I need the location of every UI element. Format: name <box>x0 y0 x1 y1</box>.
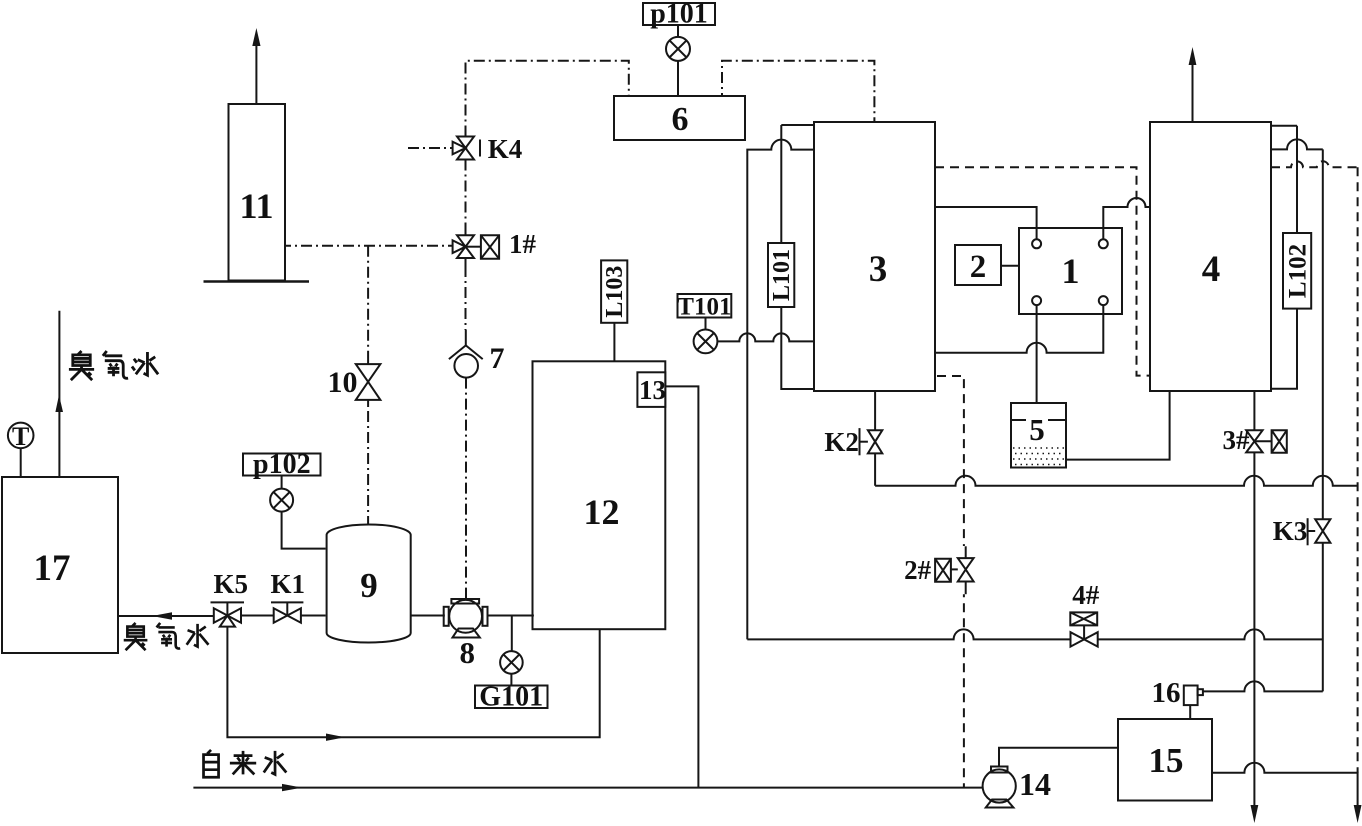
instrument T101 circle <box>694 318 718 354</box>
box 13 on tank 12 <box>637 372 665 407</box>
svg-text:G101: G101 <box>479 682 543 713</box>
power supply box 2 <box>955 245 1001 285</box>
svg-text:L103: L103 <box>602 266 628 318</box>
dash-dot wire: 1# down to check valve 7 <box>465 258 467 266</box>
instrument T on box 17 <box>8 423 34 477</box>
level sensor L102 side wire <box>1271 126 1297 389</box>
valve K1 <box>271 602 303 622</box>
svg-text:7: 7 <box>490 342 505 375</box>
wire: K5 bottom to tank 12 bottom (return) <box>227 627 599 741</box>
svg-text:4#: 4# <box>1072 580 1100 610</box>
dashed wire: tank 4 right to far-right dashed riser (with wiggles) <box>1271 161 1358 167</box>
wire: sensor 16 to K3 riser bottom with bump <box>1203 681 1323 691</box>
wire: pump 14 up and right to box 15 <box>999 748 1118 767</box>
svg-text:K4: K4 <box>488 134 523 164</box>
instrument p101 label box <box>643 3 715 25</box>
tank 5 <box>1011 403 1066 468</box>
svg-text:K1: K1 <box>270 569 305 599</box>
svg-text:11: 11 <box>239 186 273 226</box>
level sensor L103 wire <box>613 323 615 362</box>
wire: K1 to vessel 9 <box>301 615 326 617</box>
instrument p101 circle <box>666 25 690 96</box>
valve 3# (with actuator box) <box>1246 430 1287 453</box>
svg-text:p102: p102 <box>253 449 311 480</box>
instrument p102 label box <box>243 454 321 476</box>
valve 1# (three-way with actuator box) <box>453 235 500 258</box>
box 15 <box>1118 719 1212 801</box>
svg-text:17: 17 <box>34 548 71 589</box>
wire: corner feed into reactor 3 (x=747 long line) with bump over L101 <box>747 140 814 640</box>
valve K2 drop from reactor 3 <box>874 391 876 430</box>
tap water main wire with arrow <box>193 784 982 791</box>
level sensor L101 label box <box>768 243 794 307</box>
svg-text:14: 14 <box>1019 766 1051 802</box>
dashed wire: reactor 3 right to dashed riser (top) <box>935 167 1150 375</box>
svg-text:16: 16 <box>1152 677 1181 709</box>
svg-text:9: 9 <box>360 566 378 605</box>
svg-text:8: 8 <box>459 635 475 670</box>
electrolyzer 1 <box>1019 228 1122 314</box>
valve K5 (three-way) <box>211 602 245 626</box>
svg-text:3#: 3# <box>1223 425 1251 455</box>
main riser continues to bottom arrow <box>1251 452 1259 823</box>
valve K2 <box>860 428 883 455</box>
wire: x=747 corner to 4# line across to K3 riser, bumps at dashed and main riser <box>747 629 1323 639</box>
check valve 7 (circle with chevron) <box>449 345 483 377</box>
wire: tank 5 to tank 4 bottom <box>1066 391 1170 460</box>
dash-dot wire: tank 11 to valve 1# <box>285 245 453 247</box>
label ozone ice (Chinese) <box>69 351 158 380</box>
wire: box 17 to valve K5 with left arrow <box>118 612 214 619</box>
svg-text:13: 13 <box>639 375 666 405</box>
svg-text:4: 4 <box>1202 249 1221 290</box>
svg-text:2: 2 <box>970 249 987 285</box>
reactor 3 <box>814 122 935 391</box>
sensor 16 <box>1184 686 1203 720</box>
instrument p102 circle <box>270 476 293 512</box>
dash-dot wire: box 6 right to reactor 3 top <box>722 61 874 122</box>
wire: K5 to K1 <box>241 615 274 617</box>
svg-text:L102: L102 <box>1284 244 1311 298</box>
ozone-ice outlet arrow from box 17 <box>55 311 63 477</box>
svg-text:1: 1 <box>1062 251 1080 291</box>
valve K3 <box>1308 518 1331 545</box>
vent arrow above tank 11 <box>252 28 260 104</box>
dashed control wire: 2# branch <box>963 594 965 787</box>
wire: vessel 9 to pump 8 <box>411 615 445 617</box>
terminal circles of electrolyzer 1 <box>1032 239 1041 248</box>
vessel 9 (rounded tank) <box>327 524 411 642</box>
dashed wire: reactor 3 bottom right corner down <box>937 376 964 546</box>
svg-text:6: 6 <box>672 101 689 138</box>
svg-text:T: T <box>12 422 29 451</box>
svg-text:K5: K5 <box>214 569 249 599</box>
wire: tank 4 right to K3 riser with bump <box>1271 139 1323 149</box>
instrument G101 drop wire <box>511 616 513 652</box>
dash-dot wire: K4 riser up and over to control box 6 <box>466 61 629 137</box>
vent arrow above tank 4 <box>1189 47 1197 122</box>
dash-dot wire: junction down to valve 10 <box>367 246 369 358</box>
wire: box 2 to electrolyzer 1 <box>1001 265 1019 267</box>
wire: T101 to reactor 3 with bumps <box>717 333 814 341</box>
svg-text:T101: T101 <box>677 294 731 321</box>
valve 2# (with actuator box on left) <box>935 546 974 594</box>
instrument T101 label box <box>678 294 732 318</box>
tap water line (Chinese label) <box>204 750 287 777</box>
K3 riser wire <box>1322 149 1324 691</box>
wire: box 15 right to bottom-right arrow with bump <box>1212 763 1362 823</box>
dash-dot stub left of valve K4 <box>408 147 453 149</box>
level sensor L102 label box <box>1283 233 1311 309</box>
dash-dot wire: valve 10 to vessel 9 <box>367 400 369 406</box>
freezer box 17 <box>2 477 118 653</box>
svg-text:1#: 1# <box>509 229 537 259</box>
wire: electrolyzer 1 top-right terminal to tank 4 with bump <box>1103 198 1150 239</box>
valve 4# (with actuator box on top) <box>1070 612 1097 646</box>
base line of tank 11 <box>204 280 310 283</box>
wire: box 13 to tap-water line <box>665 386 698 787</box>
valve 10 <box>356 364 381 400</box>
label ozone water (Chinese) <box>124 623 209 650</box>
tank 12 <box>533 361 666 629</box>
dash-dot wire: 7 down to pump 8 <box>465 378 467 592</box>
svg-text:L101: L101 <box>769 249 795 301</box>
svg-text:K3: K3 <box>1273 516 1308 546</box>
instrument G101 circle <box>500 651 523 685</box>
level sensor L103 label box <box>601 260 627 322</box>
pump 14 <box>983 767 1016 808</box>
pump 8 <box>444 599 488 638</box>
main product riser from tank 4 bottom <box>1253 391 1255 430</box>
valve K4 (three-way) <box>453 137 480 160</box>
svg-text:10: 10 <box>328 366 358 399</box>
svg-text:15: 15 <box>1149 741 1184 780</box>
svg-text:5: 5 <box>1029 412 1045 447</box>
dash-dot wire: K4 down to valve 1# <box>465 160 467 229</box>
tank 11 <box>229 104 286 281</box>
wire: electrolyzer 1 bottom-left terminal down to tank 5 <box>1036 305 1038 403</box>
wire: K2 down and right to far right (y=485.8) with bumps <box>875 453 1358 485</box>
svg-text:2#: 2# <box>904 555 932 585</box>
instrument G101 label box <box>475 686 548 709</box>
svg-text:3: 3 <box>869 249 888 290</box>
wire: reactor 3 to tank 4 lower connection with bump <box>935 305 1103 353</box>
svg-text:12: 12 <box>584 492 620 532</box>
svg-text:K2: K2 <box>824 427 859 457</box>
level sensor L101 side wire <box>781 125 814 389</box>
wire: p102 to vessel 9 <box>282 512 326 549</box>
dashed riser at far right <box>1357 167 1359 772</box>
control box 6 <box>614 96 745 140</box>
wire: pump 8 to tank 12 <box>487 615 534 617</box>
tank 4 <box>1150 122 1271 391</box>
wire: reactor 3 to electrolyzer 1 top-left terminal <box>935 207 1037 239</box>
